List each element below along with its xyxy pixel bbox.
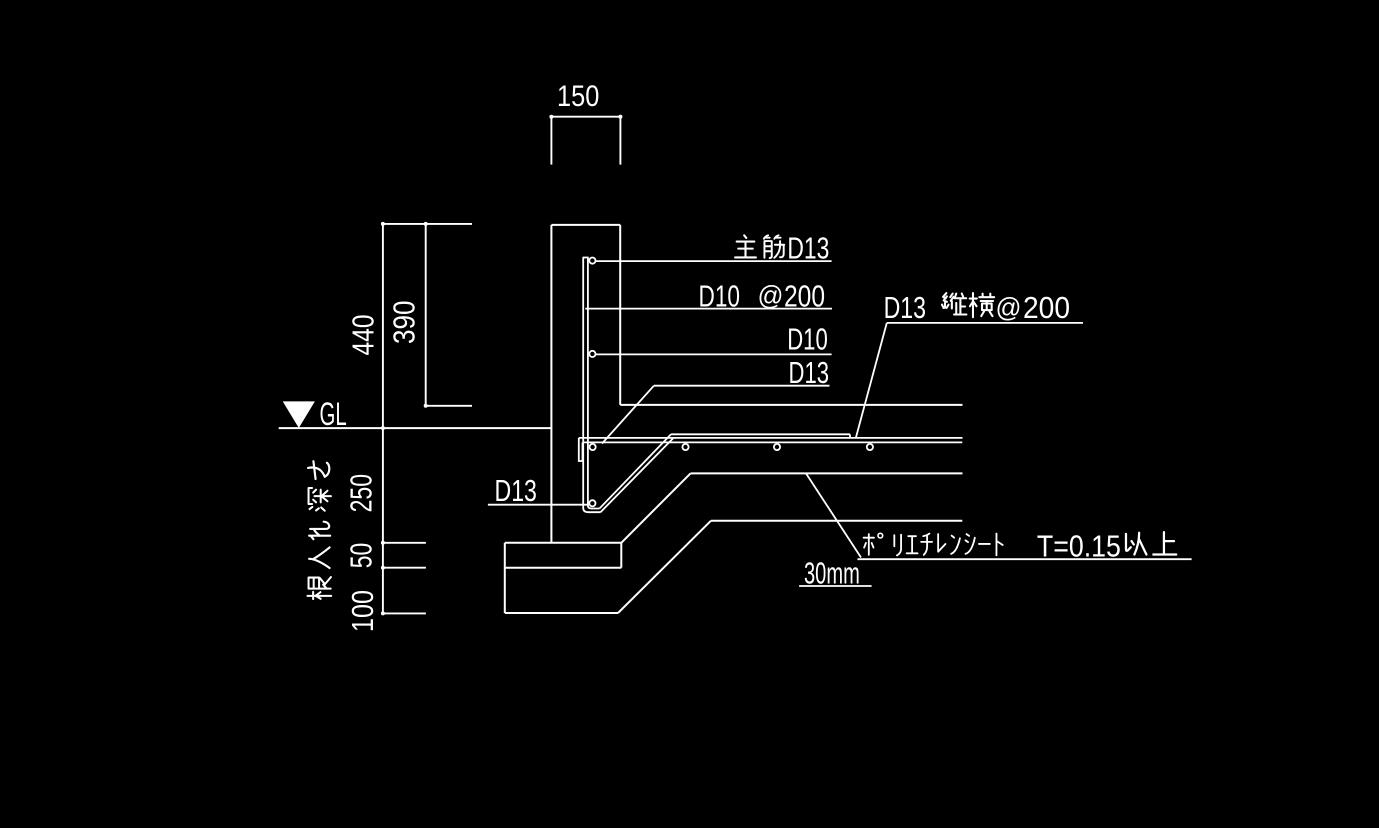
slab mesh left end hook — [579, 438, 583, 461]
wall rebar bottom bend outer — [583, 504, 600, 512]
wall vertical rebar D10 left line — [582, 258, 584, 506]
dim dot 390 bottom — [424, 404, 428, 408]
svg-text:D13: D13 — [884, 290, 926, 325]
svg-text:30mm: 30mm — [804, 556, 860, 591]
svg-text:D13: D13 — [789, 355, 830, 390]
GL symbol triangle — [284, 402, 314, 427]
kanji 入 — [309, 547, 330, 568]
dim dot top left — [381, 222, 385, 226]
excavation line lower horizontal (gravel underside) — [711, 520, 962, 522]
leader line for D10 — [592, 353, 831, 355]
dimension tick at 390 bottom — [426, 405, 472, 407]
label katakana レ — [938, 534, 945, 552]
wall right edge — [619, 225, 621, 405]
wall top edge — [551, 224, 620, 226]
wall rebar diagonal into slab outer line — [601, 438, 674, 512]
svg-text:D10: D10 — [787, 322, 828, 357]
leader underline for D13 縦横@200 — [887, 322, 1083, 324]
vertical dimension line 440/250/50/100 — [382, 224, 384, 614]
label katakana チ — [921, 534, 932, 555]
label katakana ー — [979, 543, 990, 545]
leader line for D13 slab bar diagonal — [602, 386, 654, 444]
wall rebar leg end hook — [849, 434, 851, 438]
wall rebar bottom bend inner — [588, 504, 600, 509]
svg-text:@: @ — [758, 281, 784, 311]
footing bottom edge — [505, 612, 618, 614]
leader diagonal for D13 縦横@200 — [856, 323, 887, 438]
svg-text:D13: D13 — [495, 473, 537, 508]
dimension tick at footing top — [383, 542, 426, 544]
wall rebar cross-section circle upper — [589, 258, 595, 264]
leader line for left D13 — [488, 504, 588, 506]
slab mesh bar top line — [579, 437, 963, 439]
leader line for D13 slab bar horizontal — [654, 385, 830, 387]
svg-text:200: 200 — [1023, 290, 1070, 325]
slab cross bar circle 2 — [682, 444, 688, 450]
leader diagonal for polyethylene sheet — [806, 473, 861, 557]
label D13 縦横@200 kanji 横 — [970, 293, 994, 317]
slab mesh bar bottom line — [583, 441, 963, 443]
footing left edge — [504, 543, 506, 613]
label kanji 以 — [1126, 533, 1146, 555]
svg-text:200: 200 — [784, 279, 825, 314]
dim dot top right — [424, 222, 428, 226]
label katakana ト — [996, 534, 1002, 556]
wall rebar diagonal into slab inner line — [600, 434, 672, 508]
slab cross bar circle 1 — [590, 444, 596, 450]
kanji 深 — [309, 488, 331, 511]
wall rebar bend circle — [589, 500, 595, 506]
dimension tick at footing bottom — [383, 612, 426, 614]
dim dot at footing bottom — [381, 611, 385, 615]
svg-text:@: @ — [996, 293, 1022, 323]
leader underline for polyethylene sheet — [858, 558, 1192, 560]
dimension tick at top of wall — [383, 223, 472, 225]
svg-text:250: 250 — [344, 474, 379, 513]
hiragana さ — [308, 461, 329, 479]
label katakana リ — [894, 535, 901, 556]
svg-text:50: 50 — [344, 543, 379, 569]
leader line for D10 @200 — [585, 308, 832, 310]
slab top surface — [620, 404, 962, 406]
svg-text:GL: GL — [320, 396, 347, 432]
footing right edge — [620, 543, 622, 568]
excavation line upper diagonal — [621, 473, 690, 542]
vertical dimension line 390 — [425, 224, 427, 406]
slab cross bar circle 4 — [867, 444, 873, 450]
label katakana エ — [907, 536, 918, 553]
dimension line 150 — [550, 116, 620, 118]
label katakana handakuten ゜ — [878, 533, 883, 538]
wall rebar cross-section circle lower — [589, 351, 595, 357]
label katakana ン — [951, 536, 960, 554]
footing top edge — [505, 542, 622, 544]
dimension 150 end dot right — [618, 115, 622, 119]
hiragana れ — [309, 522, 330, 540]
underline for 30mm — [799, 585, 872, 587]
dimension 150 end dot left — [549, 115, 553, 119]
dimension tick at footing joint — [383, 567, 426, 569]
dim dot at GL — [381, 426, 385, 430]
svg-text:150: 150 — [557, 80, 599, 113]
footing mid joint line — [505, 567, 622, 569]
ground level GL line — [279, 427, 552, 429]
slab cross bar circle 3 — [774, 444, 780, 450]
excavation line lower diagonal — [618, 521, 711, 613]
svg-text:390: 390 — [387, 301, 422, 345]
leader line for 主筋D13 — [592, 260, 831, 262]
excavation line upper horizontal (slab underside) — [691, 472, 963, 474]
wall rebar horizontal leg in slab — [671, 433, 850, 435]
wall vertical rebar D10 right line — [587, 258, 589, 506]
label 根入れ深さ (rotated) — [307, 461, 331, 599]
svg-text:D13: D13 — [787, 231, 829, 266]
svg-text:T=0.15: T=0.15 — [1037, 529, 1121, 564]
label kanji 上 — [1153, 532, 1176, 554]
dimension 150 extension left — [550, 117, 552, 165]
wall left edge — [550, 225, 552, 543]
dim dot at footing top — [381, 541, 385, 545]
label 主筋D13 kanji 主 — [735, 235, 756, 257]
label D13 縦横@200 kanji 縦 — [942, 293, 966, 314]
svg-text:D10: D10 — [699, 279, 741, 314]
label 主筋D13 kanji 筋 — [764, 235, 784, 258]
label katakana シ — [965, 534, 974, 554]
kanji 根 — [307, 577, 331, 599]
dimension 150 extension right — [619, 117, 621, 165]
svg-text:440: 440 — [346, 315, 381, 356]
wall rebar top cap — [583, 257, 589, 259]
label katakana ポ(ホ) — [864, 534, 874, 555]
dim dot at footing joint — [381, 566, 385, 570]
svg-text:100: 100 — [345, 590, 380, 632]
